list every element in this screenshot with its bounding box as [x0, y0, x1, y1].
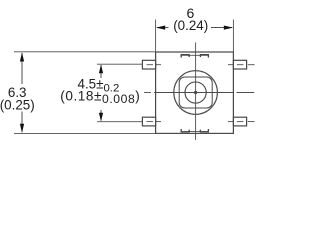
dim 4.5: extension line top (to terminal) — [97, 63, 142, 65]
dim 4.5: extension line bottom (to terminal) — [97, 121, 142, 123]
terminal centerline dashes top-right — [237, 64, 244, 66]
large boss circle — [174, 71, 218, 115]
terminal top-right — [233, 60, 246, 69]
button circle — [185, 82, 206, 103]
svg-text:(0.18±0.008): (0.18±0.008) — [60, 89, 140, 107]
dim 4.5: upper arrow — [100, 65, 102, 78]
terminal centerline dashes top-left — [147, 64, 154, 66]
center dot — [194, 91, 197, 94]
bottom edge recess line — [181, 131, 209, 133]
dim 6.3: upper arrow — [21, 53, 23, 84]
dim 6: right arrow — [211, 27, 232, 29]
terminal bottom-right — [233, 117, 246, 126]
svg-text:(0.25): (0.25) — [0, 97, 35, 112]
terminal bottom-left — [142, 117, 155, 126]
bottom edge tab left — [181, 129, 189, 132]
dim 6: extension line right — [232, 20, 234, 53]
top edge recess line — [181, 54, 209, 56]
dim 6: extension line left — [155, 20, 157, 53]
top edge tab left — [181, 55, 189, 58]
terminal centerline dashes bottom-right — [237, 121, 244, 123]
dim 6.3: extension line bottom — [14, 132, 233, 134]
dim 6.3: lower arrow — [21, 112, 23, 133]
bottom edge tab right — [200, 129, 208, 132]
vertical centerline — [195, 43, 197, 141]
top edge tab right — [200, 55, 208, 58]
rounded square frame — [179, 77, 212, 108]
terminal top-left — [142, 60, 155, 69]
horizontal centerline — [144, 92, 151, 94]
terminal centerline dashes bottom-left — [147, 121, 154, 123]
dim 6.3: extension line top — [14, 51, 156, 53]
svg-text:(0.24): (0.24) — [173, 18, 208, 33]
dim 4.5: lower arrow — [100, 110, 102, 121]
switch body outline — [156, 52, 234, 133]
dim 6: left arrow — [157, 27, 169, 29]
